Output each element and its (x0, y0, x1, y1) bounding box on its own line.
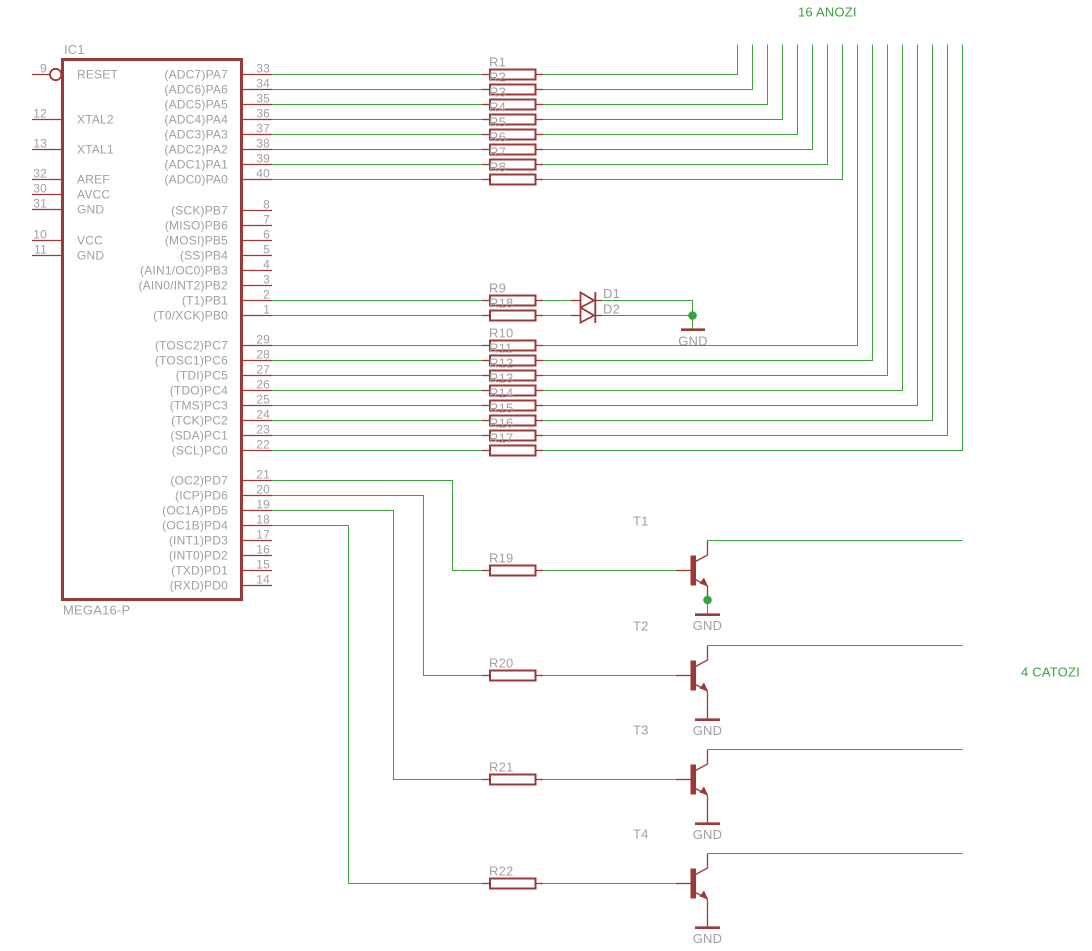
svg-text:R21: R21 (489, 760, 513, 775)
IC1 pin 22 (SCL)PC0 (172, 438, 272, 458)
IC1 pin 8 (SCK)PB7 (171, 198, 272, 218)
svg-text:20: 20 (256, 483, 270, 497)
wire anode net 5 to bus (543, 45, 798, 135)
IC1 pin 1 (T0/XCK)PB0 (153, 303, 272, 323)
wire PD pin to R22 (272, 526, 482, 884)
resistor R2 (482, 70, 543, 95)
svg-text:16 ANOZI: 16 ANOZI (798, 5, 857, 20)
wire PD pin to R19 (272, 481, 482, 571)
wire PB1 pin to R9 (272, 300, 482, 302)
wire PC5 pin to R12 (272, 375, 482, 377)
IC1 pin 9 RESET (32, 62, 118, 82)
IC1 pin 37 (ADC3)PA3 (164, 122, 272, 142)
svg-text:6: 6 (263, 228, 270, 242)
svg-text:R17: R17 (489, 431, 513, 446)
IC1 pin 24 (TCK)PC2 (171, 408, 272, 428)
resistor R9 (482, 281, 543, 306)
svg-text:R10: R10 (489, 326, 513, 341)
wire anode net 6 to bus (543, 45, 813, 150)
svg-text:(INT1)PD3: (INT1)PD3 (169, 534, 228, 548)
wire anode net 2 to bus (543, 45, 753, 90)
svg-text:GND: GND (678, 334, 708, 349)
svg-text:(ADC7)PA7: (ADC7)PA7 (164, 68, 228, 82)
wire PC1 pin to R16 (272, 435, 482, 437)
wire PD pin to R21 (272, 511, 482, 780)
svg-text:(ADC4)PA4: (ADC4)PA4 (164, 113, 228, 127)
svg-text:13: 13 (33, 137, 47, 151)
wire T3 emitter to GND (707, 795, 709, 823)
IC1 pin 10 VCC (32, 228, 103, 248)
IC1 pin 30 AVCC (32, 182, 110, 202)
svg-text:(AIN0/INT2)PB2: (AIN0/INT2)PB2 (139, 279, 229, 293)
wire PA4 pin to R4 (272, 119, 482, 121)
svg-text:(OC2)PD7: (OC2)PD7 (170, 474, 228, 488)
svg-text:4: 4 (263, 258, 270, 272)
svg-text:(MISO)PB6: (MISO)PB6 (165, 219, 228, 233)
svg-text:15: 15 (256, 558, 270, 572)
resistor R13 (482, 371, 543, 396)
net label 16 ANOZI (798, 5, 857, 20)
wire anode net 13 to bus (543, 45, 918, 406)
IC1 pin 34 (ADC6)PA6 (164, 77, 272, 97)
transistor T1 (633, 514, 708, 587)
transistor T2 (633, 619, 708, 692)
svg-text:D2: D2 (603, 302, 620, 317)
wire R22 to T4 base (543, 883, 676, 885)
svg-text:9: 9 (40, 62, 47, 76)
resistor R10 (482, 326, 543, 351)
IC1 pin 27 (TDI)PC5 (176, 363, 272, 383)
svg-text:17: 17 (256, 528, 270, 542)
svg-text:(SCL)PC0: (SCL)PC0 (172, 444, 228, 458)
IC1 pin 5 (SS)PB4 (180, 243, 272, 263)
resistor R17 (482, 431, 543, 456)
svg-text:XTAL2: XTAL2 (77, 113, 114, 127)
svg-text:24: 24 (256, 408, 270, 422)
svg-text:(TCK)PC2: (TCK)PC2 (171, 414, 228, 428)
svg-text:5: 5 (263, 243, 270, 257)
svg-text:(TOSC1)PC6: (TOSC1)PC6 (155, 354, 228, 368)
svg-text:MEGA16-P: MEGA16-P (63, 603, 130, 618)
IC1 pin 29 (TOSC2)PC7 (155, 333, 272, 353)
ground GND (T2) (693, 720, 723, 738)
wire PA7 pin to R1 (272, 74, 482, 76)
svg-text:GND: GND (77, 249, 104, 263)
resistor R3 (482, 85, 543, 110)
resistor R12 (482, 356, 543, 381)
resistor R4 (482, 100, 543, 125)
svg-text:10: 10 (33, 228, 47, 242)
svg-text:7: 7 (263, 213, 270, 227)
junction diode GND node (688, 311, 697, 320)
wire T2 emitter to GND (707, 691, 709, 719)
IC1 pin 2 (T1)PB1 (182, 288, 272, 308)
IC1 pin 35 (ADC5)PA5 (164, 92, 272, 112)
resistor R14 (482, 386, 543, 411)
wire R18 to D2 (543, 315, 571, 317)
svg-text:2: 2 (263, 288, 270, 302)
svg-text:GND: GND (693, 618, 723, 633)
svg-text:R18: R18 (489, 296, 513, 311)
svg-text:12: 12 (33, 107, 47, 121)
svg-text:(ADC6)PA6: (ADC6)PA6 (164, 83, 228, 97)
wire PA6 pin to R2 (272, 89, 482, 91)
svg-text:R5: R5 (489, 115, 506, 130)
ground GND (T4) (693, 928, 723, 946)
svg-text:(SDA)PC1: (SDA)PC1 (170, 429, 228, 443)
svg-text:GND: GND (693, 931, 723, 946)
wire anode net 9 to bus (543, 45, 858, 346)
wire anode net 15 to bus (543, 45, 948, 436)
svg-text:14: 14 (256, 573, 270, 587)
IC1 pin 40 (ADC0)PA0 (164, 167, 272, 187)
IC1 pin 36 (ADC4)PA4 (164, 107, 272, 127)
IC1 pin 13 XTAL1 (32, 137, 114, 157)
wire PA0 pin to R8 (272, 179, 482, 181)
wire PA3 pin to R5 (272, 134, 482, 136)
IC1 pin 4 (AIN1/OC0)PB3 (140, 258, 272, 278)
svg-text:38: 38 (256, 137, 270, 151)
ground GND (T3) (693, 824, 723, 842)
svg-text:(ADC5)PA5: (ADC5)PA5 (164, 98, 228, 112)
IC1 pin 31 GND (32, 197, 104, 217)
wire anode net 12 to bus (543, 45, 903, 391)
wire anode net 16 to bus (543, 45, 963, 451)
svg-text:R4: R4 (489, 100, 506, 115)
svg-text:R22: R22 (489, 864, 513, 879)
IC1 pin 15 (TXD)PD1 (171, 558, 272, 578)
svg-text:(AIN1/OC0)PB3: (AIN1/OC0)PB3 (140, 264, 228, 278)
wire anode net 7 to bus (543, 45, 828, 165)
resistor R15 (482, 401, 543, 426)
diode D1 (571, 286, 620, 308)
svg-text:23: 23 (256, 423, 270, 437)
wire PC7 pin to R10 (272, 345, 482, 347)
wire T1 collector (catod) (708, 540, 963, 542)
wire PD pin to R20 (272, 496, 482, 676)
wire anode net 14 to bus (543, 45, 933, 421)
svg-text:33: 33 (256, 62, 270, 76)
resistor R1 (482, 55, 543, 80)
wire R9 to D1 (543, 300, 571, 302)
IC1 pin 28 (TOSC1)PC6 (155, 348, 272, 368)
svg-text:AREF: AREF (77, 173, 110, 187)
IC1 pin 17 (INT1)PD3 (169, 528, 272, 548)
svg-text:40: 40 (256, 167, 270, 181)
IC1 pin 32 AREF (32, 167, 110, 187)
IC1 pin 14 (RXD)PD0 (170, 573, 272, 593)
svg-text:R15: R15 (489, 401, 513, 416)
IC1 pin 33 (ADC7)PA7 (164, 62, 272, 82)
IC1 pin 39 (ADC1)PA1 (164, 152, 272, 172)
svg-text:21: 21 (256, 468, 270, 482)
svg-text:R7: R7 (489, 145, 506, 160)
wire anode net 1 to bus (543, 45, 738, 75)
svg-text:(RXD)PD0: (RXD)PD0 (170, 579, 228, 593)
svg-text:39: 39 (256, 152, 270, 166)
wire anode net 8 to bus (543, 45, 843, 180)
transistor T3 (633, 723, 708, 796)
svg-text:T3: T3 (633, 723, 649, 738)
svg-text:(SCK)PB7: (SCK)PB7 (171, 204, 228, 218)
resistor R11 (482, 341, 543, 366)
IC1 pin 38 (ADC2)PA2 (164, 137, 272, 157)
wire PC2 pin to R15 (272, 420, 482, 422)
svg-text:(SS)PB4: (SS)PB4 (180, 249, 228, 263)
IC1 pin 19 (OC1A)PD5 (162, 498, 272, 518)
resistor R19 (482, 551, 543, 576)
IC1 value label MEGA16-P (63, 603, 130, 618)
svg-text:27: 27 (256, 363, 270, 377)
svg-text:8: 8 (263, 198, 270, 212)
wire T1 emitter (707, 586, 709, 597)
wire T4 collector (catod) (708, 853, 963, 855)
svg-text:GND: GND (693, 827, 723, 842)
svg-text:(MOSI)PB5: (MOSI)PB5 (165, 234, 228, 248)
svg-text:31: 31 (33, 197, 47, 211)
IC1 pin 16 (INT0)PD2 (169, 543, 272, 563)
wire PA2 pin to R6 (272, 149, 482, 151)
svg-text:R16: R16 (489, 416, 513, 431)
resistor R21 (482, 760, 543, 785)
svg-text:29: 29 (256, 333, 270, 347)
svg-text:T1: T1 (633, 514, 649, 529)
IC1 pin 12 XTAL2 (32, 107, 114, 127)
wire T4 emitter to GND (707, 899, 709, 927)
IC1 pin 26 (TDO)PC4 (170, 378, 272, 398)
IC1 pin 6 (MOSI)PB5 (165, 228, 272, 248)
wire PC4 pin to R13 (272, 390, 482, 392)
wire PA1 pin to R7 (272, 164, 482, 166)
resistor R18 (482, 296, 543, 321)
svg-text:R3: R3 (489, 85, 506, 100)
svg-text:36: 36 (256, 107, 270, 121)
wire D1 cathode to GND node (602, 301, 693, 316)
ground GND (T1) (693, 615, 723, 633)
resistor R5 (482, 115, 543, 140)
svg-text:(TXD)PD1: (TXD)PD1 (171, 564, 228, 578)
svg-text:R1: R1 (489, 55, 506, 70)
svg-text:1: 1 (263, 303, 270, 317)
svg-text:30: 30 (33, 182, 47, 196)
svg-text:22: 22 (256, 438, 270, 452)
svg-text:R12: R12 (489, 356, 513, 371)
transistor T4 (633, 827, 708, 900)
svg-text:28: 28 (256, 348, 270, 362)
svg-text:R14: R14 (489, 386, 513, 401)
net label 4 CATOZI (1021, 665, 1080, 680)
svg-text:34: 34 (256, 77, 270, 91)
svg-text:(T0/XCK)PB0: (T0/XCK)PB0 (153, 309, 228, 323)
svg-text:T4: T4 (633, 827, 649, 842)
svg-text:GND: GND (77, 203, 104, 217)
svg-text:RESET: RESET (77, 68, 118, 82)
svg-text:32: 32 (33, 167, 47, 181)
svg-text:R20: R20 (489, 656, 513, 671)
svg-text:R2: R2 (489, 70, 506, 85)
IC1 pin 23 (SDA)PC1 (170, 423, 272, 443)
svg-text:XTAL1: XTAL1 (77, 143, 114, 157)
svg-text:11: 11 (34, 243, 47, 257)
svg-text:26: 26 (256, 378, 270, 392)
svg-text:R19: R19 (489, 551, 513, 566)
svg-text:R9: R9 (489, 281, 506, 296)
svg-text:3: 3 (263, 273, 270, 287)
wire node to GND symbol (692, 316, 694, 329)
svg-text:AVCC: AVCC (77, 188, 110, 202)
svg-text:D1: D1 (603, 286, 620, 301)
svg-text:37: 37 (256, 122, 270, 136)
svg-text:16: 16 (256, 543, 270, 557)
svg-text:R13: R13 (489, 371, 513, 386)
wire anode net 4 to bus (543, 45, 783, 120)
svg-text:(ADC3)PA3: (ADC3)PA3 (164, 128, 228, 142)
IC1 name label (64, 42, 85, 57)
wire R21 to T3 base (543, 779, 676, 781)
svg-text:(TDI)PC5: (TDI)PC5 (176, 369, 228, 383)
wire node to GND symbol (707, 600, 709, 614)
wire anode net 3 to bus (543, 45, 768, 105)
svg-text:(ADC1)PA1: (ADC1)PA1 (164, 158, 228, 172)
wire T3 collector (catod) (708, 749, 963, 751)
IC1 pin 11 GND (32, 243, 104, 263)
wire T2 collector (catod) (708, 645, 963, 647)
IC1 pin 18 (OC1B)PD4 (162, 513, 272, 533)
wire PC0 pin to R17 (272, 450, 482, 452)
IC1 pin 20 (ICP)PD6 (175, 483, 272, 503)
wire R20 to T2 base (543, 675, 676, 677)
IC1 pin 25 (TMS)PC3 (170, 393, 272, 413)
svg-text:R8: R8 (489, 160, 506, 175)
resistor R6 (482, 130, 543, 155)
IC1 pin 3 (AIN0/INT2)PB2 (139, 273, 273, 293)
IC1 pin 7 (MISO)PB6 (165, 213, 272, 233)
svg-text:(TDO)PC4: (TDO)PC4 (170, 384, 228, 398)
svg-text:(ICP)PD6: (ICP)PD6 (175, 489, 228, 503)
wire PC3 pin to R14 (272, 405, 482, 407)
wire anode net 11 to bus (543, 45, 888, 376)
IC IC1 MEGA16-P body (63, 60, 242, 600)
svg-text:(ADC2)PA2: (ADC2)PA2 (164, 143, 228, 157)
resistor R8 (482, 160, 543, 185)
svg-text:4 CATOZI: 4 CATOZI (1021, 665, 1080, 680)
svg-text:R6: R6 (489, 130, 506, 145)
svg-text:(INT0)PD2: (INT0)PD2 (169, 549, 228, 563)
svg-text:R11: R11 (489, 341, 512, 356)
wire R19 to T1 base (543, 570, 676, 572)
wire D2 cathode to GND node (602, 315, 693, 317)
svg-text:(TMS)PC3: (TMS)PC3 (170, 399, 228, 413)
wire anode net 10 to bus (543, 45, 873, 361)
svg-text:19: 19 (256, 498, 270, 512)
diode D2 (571, 302, 620, 324)
svg-text:GND: GND (693, 723, 723, 738)
wire PA5 pin to R3 (272, 104, 482, 106)
svg-text:35: 35 (256, 92, 270, 106)
junction T1 emitter node (703, 596, 712, 605)
svg-text:VCC: VCC (77, 234, 103, 248)
resistor R7 (482, 145, 543, 170)
svg-text:25: 25 (256, 393, 270, 407)
wire PC6 pin to R11 (272, 360, 482, 362)
svg-text:(ADC0)PA0: (ADC0)PA0 (164, 173, 228, 187)
resistor R16 (482, 416, 543, 441)
resistor R22 (482, 864, 543, 889)
svg-text:T2: T2 (633, 619, 649, 634)
svg-text:(OC1A)PD5: (OC1A)PD5 (162, 504, 228, 518)
svg-text:(TOSC2)PC7: (TOSC2)PC7 (155, 339, 228, 353)
ground GND (diodes) (678, 330, 708, 349)
svg-text:IC1: IC1 (64, 42, 85, 57)
svg-text:18: 18 (256, 513, 270, 527)
wire PB0 pin to R18 (272, 315, 482, 317)
IC1 pin 21 (OC2)PD7 (170, 468, 272, 488)
svg-text:(OC1B)PD4: (OC1B)PD4 (162, 519, 228, 533)
svg-text:(T1)PB1: (T1)PB1 (182, 294, 228, 308)
resistor R20 (482, 656, 543, 681)
